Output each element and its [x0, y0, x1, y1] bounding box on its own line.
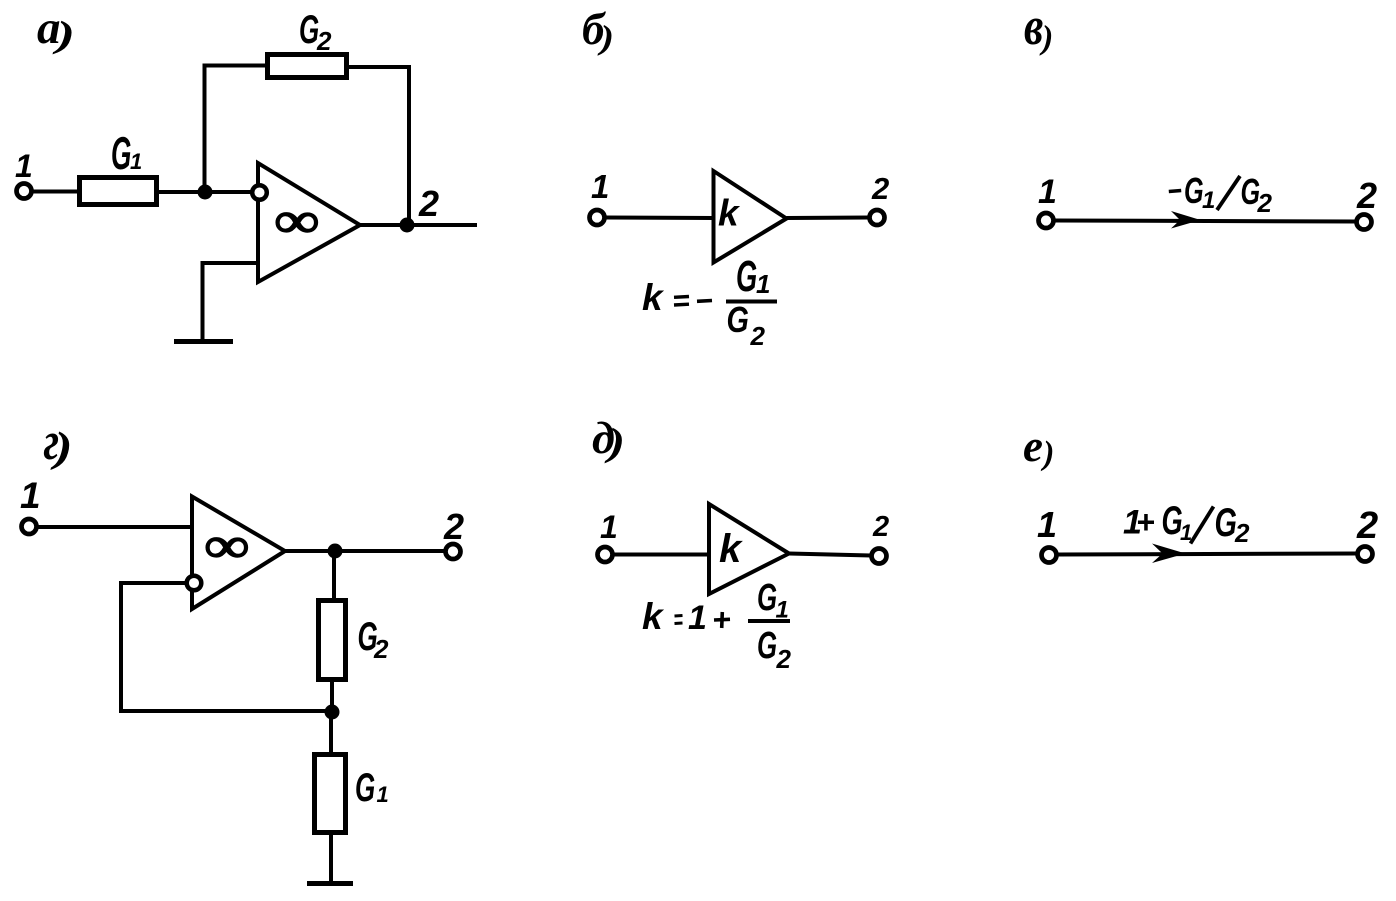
svg-text:2: 2 [418, 183, 439, 224]
svg-text:2: 2 [1257, 188, 1273, 218]
svg-text:2: 2 [871, 171, 889, 206]
svg-text:k: k [718, 193, 741, 234]
svg-text:∞: ∞ [203, 518, 249, 573]
svg-text:k: k [642, 596, 665, 637]
svg-text:1: 1 [776, 597, 789, 624]
svg-text:k: k [719, 527, 743, 571]
svg-text:1: 1 [1180, 520, 1192, 545]
svg-text:1: 1 [377, 782, 389, 807]
svg-text:1: 1 [1037, 504, 1057, 545]
svg-text:2: 2 [776, 644, 792, 674]
svg-text:е: е [1023, 421, 1043, 471]
svg-text:1: 1 [600, 509, 618, 545]
svg-text:∞: ∞ [273, 193, 319, 248]
svg-text:G: G [1184, 171, 1204, 212]
svg-text:1: 1 [20, 475, 41, 516]
svg-text:G: G [355, 765, 375, 810]
svg-text:1: 1 [15, 148, 33, 184]
svg-text:G: G [757, 624, 777, 666]
svg-text:): ) [1039, 20, 1053, 57]
svg-text:2: 2 [373, 634, 389, 664]
svg-text:1: 1 [130, 149, 142, 174]
svg-text:1: 1 [591, 168, 609, 205]
svg-text:2: 2 [750, 321, 766, 351]
svg-text:G: G [111, 127, 131, 179]
svg-text:2: 2 [1234, 518, 1250, 548]
svg-text:2: 2 [872, 511, 889, 543]
svg-text:2: 2 [316, 26, 332, 56]
svg-text:G: G [1215, 500, 1237, 545]
svg-text:): ) [597, 20, 614, 57]
svg-text:в: в [1024, 0, 1043, 56]
svg-text:2: 2 [1356, 175, 1377, 216]
svg-text:k: k [642, 277, 665, 318]
svg-text:2: 2 [1356, 505, 1378, 547]
svg-text:G: G [757, 576, 777, 618]
svg-text:1: 1 [1202, 187, 1215, 214]
svg-text:): ) [1040, 435, 1054, 472]
svg-text:2: 2 [443, 506, 464, 547]
svg-text:1: 1 [756, 269, 770, 299]
svg-text:G: G [736, 251, 757, 300]
svg-text:+: + [1136, 504, 1155, 540]
svg-text:G: G [727, 299, 749, 340]
svg-text:1: 1 [1038, 173, 1057, 211]
svg-text:1: 1 [688, 599, 707, 637]
